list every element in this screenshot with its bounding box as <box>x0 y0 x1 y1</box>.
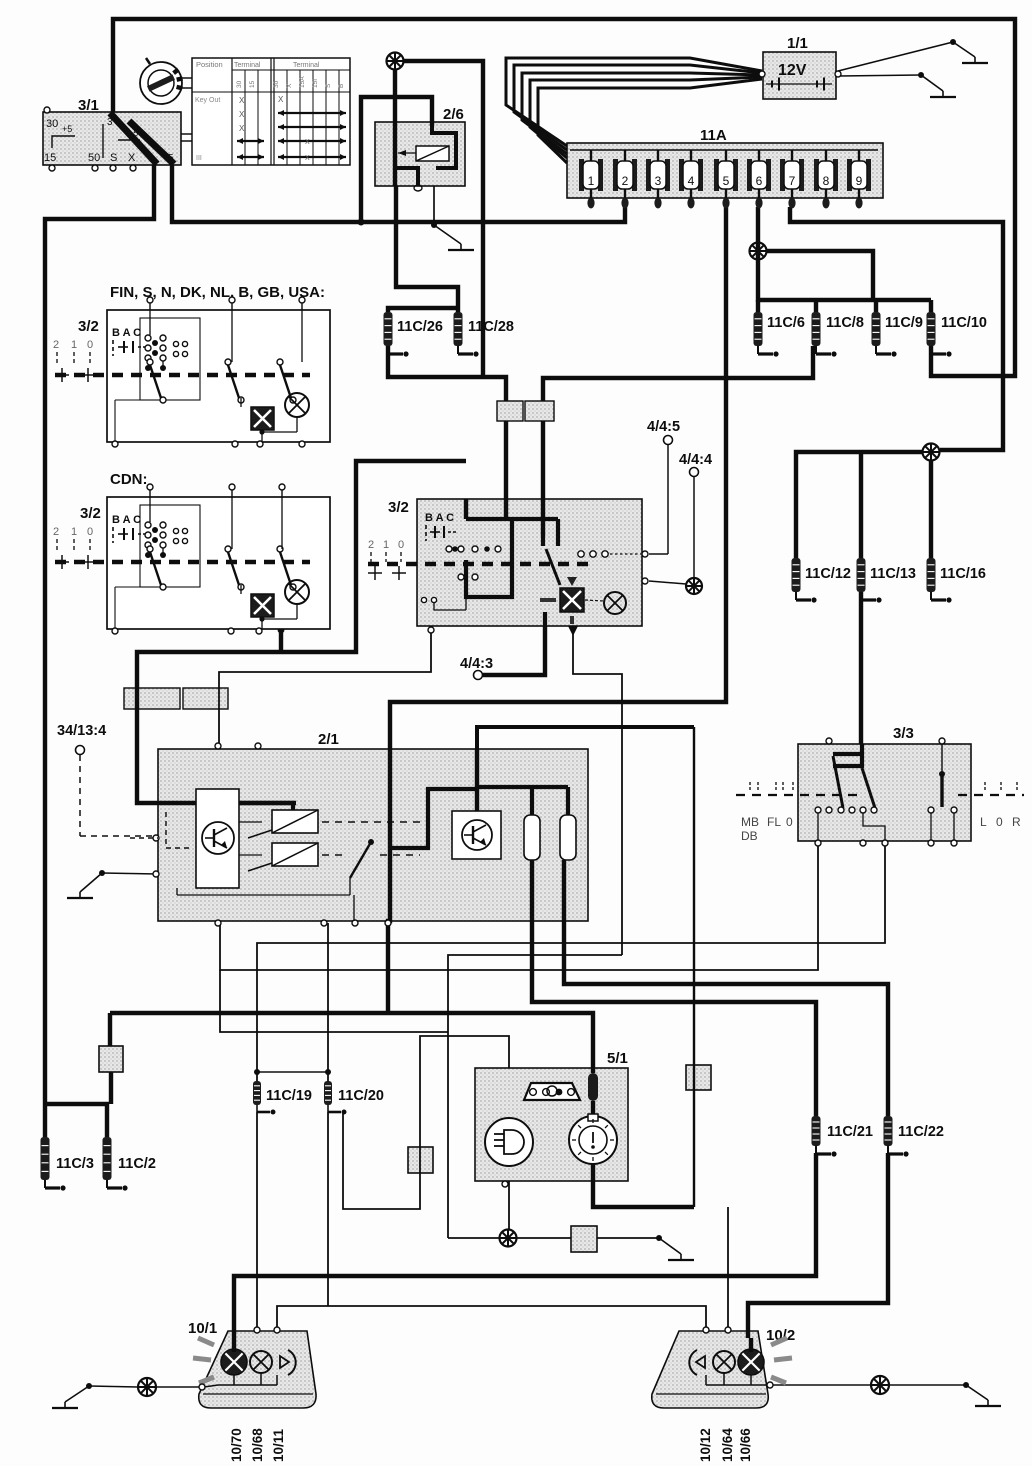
svg-text:11C/22: 11C/22 <box>898 1124 944 1140</box>
svg-text:12V: 12V <box>778 62 807 79</box>
svg-text:L: L <box>980 815 987 829</box>
svg-text:15: 15 <box>44 152 56 164</box>
svg-text:15A: 15A <box>299 76 306 88</box>
svg-text:30: 30 <box>46 118 58 130</box>
svg-text:30: 30 <box>273 80 280 88</box>
svg-text:3: 3 <box>107 117 113 128</box>
svg-text:Key Out: Key Out <box>195 97 220 104</box>
svg-text:11C/10: 11C/10 <box>941 315 987 331</box>
svg-text:11C/13: 11C/13 <box>870 566 916 582</box>
svg-text:FL: FL <box>767 815 781 829</box>
svg-text:DB: DB <box>741 829 758 843</box>
svg-text:4/4:4: 4/4:4 <box>679 452 712 468</box>
svg-text:S: S <box>110 152 117 164</box>
svg-text:2/1: 2/1 <box>318 731 339 748</box>
svg-text:3/2: 3/2 <box>80 505 101 522</box>
svg-text:1/1: 1/1 <box>787 35 808 52</box>
svg-text:X: X <box>305 155 310 162</box>
svg-text:0: 0 <box>996 815 1003 829</box>
svg-text:X: X <box>278 95 284 104</box>
svg-text:4/4:3: 4/4:3 <box>460 656 493 672</box>
svg-text:4/4:5: 4/4:5 <box>647 419 680 435</box>
svg-text:FIN, S, N, DK, NL, B, GB, USA:: FIN, S, N, DK, NL, B, GB, USA: <box>110 284 325 301</box>
svg-text:X: X <box>239 110 245 119</box>
svg-text:11C/19: 11C/19 <box>266 1088 312 1104</box>
svg-text:Terminal: Terminal <box>234 62 261 69</box>
svg-text:X: X <box>305 139 310 146</box>
svg-text:Terminal: Terminal <box>293 62 320 69</box>
svg-text:10/64: 10/64 <box>720 1428 735 1462</box>
svg-text:5: 5 <box>723 174 730 188</box>
svg-text:1: 1 <box>588 174 595 188</box>
svg-text:11C/16: 11C/16 <box>940 566 986 582</box>
svg-text:2: 2 <box>53 339 59 351</box>
svg-text:15I: 15I <box>312 79 319 88</box>
svg-text:X: X <box>239 124 245 133</box>
svg-text:4: 4 <box>688 174 695 188</box>
svg-text:11C/26: 11C/26 <box>397 319 443 335</box>
svg-text:CDN:: CDN: <box>110 471 148 488</box>
svg-text:X: X <box>286 83 293 88</box>
svg-text:10/66: 10/66 <box>738 1428 753 1462</box>
svg-text:11C/9: 11C/9 <box>885 315 923 331</box>
svg-text:1: 1 <box>71 526 77 538</box>
svg-text:2: 2 <box>368 539 374 551</box>
svg-text:B A C: B A C <box>112 327 141 339</box>
svg-text:11C/3: 11C/3 <box>56 1156 94 1172</box>
svg-text:0: 0 <box>87 339 93 351</box>
svg-text:7: 7 <box>789 174 796 188</box>
svg-text:5: 5 <box>168 153 174 164</box>
svg-text:III: III <box>196 155 202 162</box>
svg-text:10/70: 10/70 <box>229 1428 244 1462</box>
svg-text:11C/21: 11C/21 <box>827 1124 873 1140</box>
svg-text:2: 2 <box>53 526 59 538</box>
svg-text:10/1: 10/1 <box>188 1320 217 1337</box>
svg-text:15: 15 <box>249 80 256 88</box>
svg-text:11C/2: 11C/2 <box>118 1156 156 1172</box>
svg-text:3/1: 3/1 <box>78 97 99 114</box>
svg-text:11C/6: 11C/6 <box>767 315 805 331</box>
svg-text:0: 0 <box>398 539 404 551</box>
svg-text:11A: 11A <box>700 127 727 144</box>
svg-text:2/6: 2/6 <box>443 106 464 123</box>
svg-text:10/12: 10/12 <box>698 1428 713 1462</box>
svg-text:B A C: B A C <box>425 512 454 524</box>
svg-text:10/68: 10/68 <box>250 1428 265 1462</box>
svg-text:2: 2 <box>622 174 629 188</box>
svg-text:1: 1 <box>71 339 77 351</box>
svg-text:3/2: 3/2 <box>388 499 409 516</box>
svg-text:3/3: 3/3 <box>893 725 914 742</box>
svg-text:R: R <box>1012 815 1021 829</box>
svg-text:8: 8 <box>823 174 830 188</box>
svg-text:3/2: 3/2 <box>78 318 99 335</box>
svg-text:S: S <box>325 83 332 88</box>
svg-text:11C/12: 11C/12 <box>805 566 851 582</box>
svg-text:5/1: 5/1 <box>607 1050 628 1067</box>
svg-text:3: 3 <box>655 174 662 188</box>
svg-text:10/11: 10/11 <box>271 1428 286 1462</box>
svg-text:X: X <box>128 152 136 164</box>
svg-text:0: 0 <box>786 815 793 829</box>
svg-text:30: 30 <box>236 80 243 88</box>
svg-text:50: 50 <box>88 152 100 164</box>
svg-text:11C/28: 11C/28 <box>468 319 514 335</box>
svg-text:11C/8: 11C/8 <box>826 315 864 331</box>
svg-text:MB: MB <box>741 815 759 829</box>
svg-text:+5: +5 <box>128 128 138 138</box>
svg-text:11C/20: 11C/20 <box>338 1088 384 1104</box>
svg-text:B A C: B A C <box>112 514 141 526</box>
svg-text:6: 6 <box>756 174 763 188</box>
svg-text:0: 0 <box>87 526 93 538</box>
svg-text:X: X <box>239 96 245 105</box>
svg-text:34/13:4: 34/13:4 <box>57 723 106 739</box>
svg-text:1: 1 <box>383 539 389 551</box>
svg-text:Position: Position <box>196 60 223 69</box>
svg-text:9: 9 <box>856 174 863 188</box>
svg-text:B: B <box>338 84 345 88</box>
svg-text:+5: +5 <box>62 124 72 134</box>
